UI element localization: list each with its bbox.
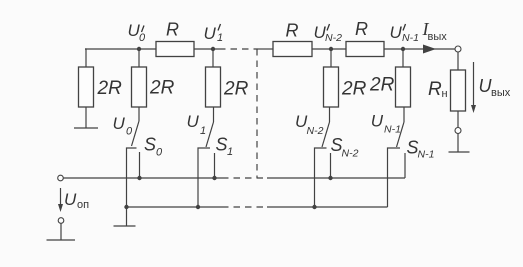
svg-text:2R: 2R	[149, 78, 175, 99]
junction dot S0 contact on upper bus	[137, 176, 141, 180]
svg-text:0: 0	[126, 126, 133, 138]
wire top rail dashed break segment	[219, 48, 258, 50]
wire node U'0 lead	[138, 49, 140, 67]
wire ground stem on lower bus	[126, 207, 128, 226]
label Ivyh	[422, 19, 448, 43]
junction dot S1 contact on upper bus	[212, 176, 216, 180]
wire top rail R2 to R3	[312, 48, 346, 50]
label S0	[144, 135, 163, 159]
label S1	[216, 135, 234, 159]
arrow Uvyh	[473, 62, 475, 106]
wire upper reference bus solid right	[267, 177, 405, 179]
wire output lower circle to ground	[457, 134, 459, 153]
svg-text:вых: вых	[491, 87, 511, 99]
svg-text:1: 1	[200, 125, 206, 137]
wire node U'1 lead	[212, 49, 214, 67]
wire left 2R top lead	[85, 49, 86, 67]
label Uop	[64, 190, 89, 211]
junction dot SN-2 bracket on lower bus	[312, 205, 316, 209]
wire lower ground bus solid right	[267, 206, 388, 208]
terminal output lower circle	[455, 128, 461, 134]
resistor R (third)	[346, 42, 384, 57]
svg-text:1: 1	[227, 146, 233, 158]
svg-text:N-1: N-1	[402, 32, 419, 44]
svg-text:2R: 2R	[369, 75, 395, 96]
resistor 2R at node U'0	[132, 67, 147, 107]
label U'1	[204, 24, 224, 44]
label U1	[187, 112, 207, 137]
svg-text:U: U	[390, 23, 403, 42]
ground under lower bus	[114, 225, 136, 227]
arrow Ivyh on top rail	[423, 45, 436, 54]
wire upper reference bus dashed	[222, 177, 267, 179]
svg-text:1: 1	[217, 32, 223, 44]
resistor 2R leftmost	[79, 67, 94, 107]
wire node U'N-1 lead	[402, 49, 404, 67]
switch S1	[198, 107, 215, 207]
junction dot S1 bracket on lower bus	[196, 205, 200, 209]
wire top rail left segment	[85, 48, 156, 50]
switch S0	[127, 107, 140, 207]
svg-text:S: S	[144, 135, 156, 155]
switch SN-2	[315, 107, 331, 207]
resistor R (second)	[273, 42, 312, 57]
label UN-2	[295, 112, 324, 137]
ground under Rn	[449, 151, 470, 153]
label U'N-1	[390, 23, 419, 44]
svg-text:0: 0	[139, 32, 146, 44]
wire top rail U0-U1 segment	[194, 48, 219, 50]
label UN-1	[371, 112, 401, 136]
svg-text:N-2: N-2	[342, 148, 359, 160]
junction dot SN-2 contact on upper bus	[328, 176, 332, 180]
resistor R (first)	[156, 42, 194, 57]
node U'1 junction dot	[211, 47, 215, 51]
junction dot S0 bracket on lower bus	[124, 205, 128, 209]
wire node U'N-2 lead	[330, 49, 332, 67]
svg-text:R: R	[428, 79, 442, 100]
arrow Uop	[60, 188, 62, 208]
svg-text:N-2: N-2	[307, 125, 324, 137]
svg-text:R: R	[355, 19, 368, 39]
svg-text:н: н	[442, 88, 448, 100]
wire output circle to Rn	[457, 52, 459, 70]
label U'0	[128, 21, 147, 44]
resistor 2R at node U'N-2	[324, 67, 339, 107]
svg-text:R: R	[286, 21, 299, 41]
svg-text:N-1: N-1	[384, 124, 401, 136]
svg-text:N-1: N-1	[418, 149, 435, 161]
svg-text:2R: 2R	[97, 78, 123, 99]
svg-text:вых: вых	[428, 31, 448, 43]
svg-text:N-2: N-2	[325, 32, 342, 44]
label SN-1	[407, 138, 435, 161]
ground under Uop	[47, 239, 76, 241]
resistor 2R at node U'1	[206, 67, 221, 107]
label U0	[113, 114, 134, 138]
wire lower ground bus dashed	[222, 206, 267, 208]
svg-text:U: U	[204, 24, 217, 43]
node U'0 junction dot	[137, 47, 141, 51]
label Rn	[428, 79, 448, 100]
wire top rail to output	[384, 48, 455, 50]
switch SN-1	[388, 107, 406, 207]
svg-text:U: U	[64, 190, 77, 209]
node U'N-2 junction dot	[329, 47, 333, 51]
label SN-2	[331, 135, 359, 160]
dashed vertical break line	[256, 49, 258, 178]
svg-text:U: U	[371, 112, 384, 131]
svg-text:U: U	[113, 114, 126, 133]
svg-text:2R: 2R	[223, 79, 249, 100]
terminal output upper circle	[455, 46, 461, 52]
svg-text:оп: оп	[77, 199, 89, 211]
label Uvyh	[479, 76, 511, 99]
svg-text:0: 0	[156, 147, 163, 159]
terminal Uop lower circle	[58, 218, 64, 224]
terminal Uop upper circle	[58, 175, 64, 181]
wire top rail before R2	[258, 48, 273, 50]
wire lower ground bus solid left	[127, 206, 223, 208]
label U'N-2	[314, 23, 343, 44]
wire Rn to lower circle	[457, 111, 459, 128]
svg-text:R: R	[166, 20, 179, 40]
wire upper reference bus solid left	[63, 177, 222, 179]
svg-text:S: S	[216, 135, 228, 155]
svg-text:2R: 2R	[341, 79, 367, 100]
wire Uop lower terminal to ground	[60, 224, 62, 241]
resistor 2R at node U'N-1	[396, 67, 411, 107]
node U'N-1 junction dot	[401, 47, 405, 51]
resistor Rn load	[451, 70, 466, 111]
ground under left 2R	[74, 127, 98, 129]
svg-text:U: U	[187, 112, 200, 131]
wire left 2R to ground	[85, 107, 87, 128]
